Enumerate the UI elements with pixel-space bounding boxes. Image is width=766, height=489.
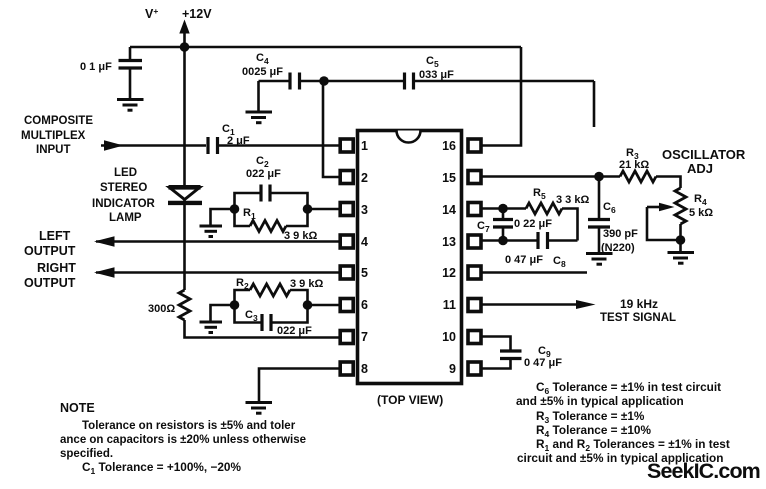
svg-text:TEST SIGNAL: TEST SIGNAL (600, 312, 676, 324)
wire: pin 12 stub (480, 271, 587, 274)
pin 14 (442, 203, 481, 218)
capacitor C5 0.033uF (405, 73, 595, 90)
pin 15 (442, 171, 481, 186)
svg-text:SeekIC.com: SeekIC.com (647, 459, 760, 483)
wire: left output line (pin 4) (96, 240, 341, 243)
svg-text:(N220): (N220) (601, 242, 635, 254)
svg-text:0 22 μF: 0 22 μF (514, 218, 552, 230)
node: C4/C5/pin2 junction (319, 76, 329, 86)
ground (pin 8) (246, 403, 273, 414)
node: R4 wiper/bottom junction (676, 235, 686, 245)
svg-text:2: 2 (361, 171, 368, 185)
test signal arrowhead (576, 300, 596, 309)
wire: pin 14 to R5 (480, 207, 526, 210)
capacitor C9 0.47uF (500, 351, 522, 359)
resistor R3 2.1k (620, 171, 656, 182)
svg-text:390 pF: 390 pF (603, 228, 638, 240)
node: pin15/R3/C6 junction (594, 172, 604, 182)
node: V+ rail / LED branch junction (180, 42, 190, 52)
wire: pin 9 to C9 (480, 360, 511, 369)
svg-text:LEFT: LEFT (39, 229, 71, 243)
pin 7 (340, 330, 368, 344)
ground (0.1uF) (117, 100, 144, 111)
svg-text:022 μF: 022 μF (246, 168, 281, 180)
wire: pin 11 test signal line (480, 303, 580, 306)
pin 1 (340, 139, 368, 153)
pin 13 (442, 235, 481, 249)
svg-text:13: 13 (442, 235, 456, 249)
svg-text:3 9 kΩ: 3 9 kΩ (284, 230, 317, 242)
wire: pin 8 to ground (259, 369, 341, 402)
node: R2 network left (230, 300, 240, 310)
svg-text:+12V: +12V (182, 7, 212, 21)
wire: R4 bottom to node (679, 224, 682, 240)
pin 2 (340, 171, 368, 186)
svg-text:6: 6 (361, 298, 368, 312)
svg-text:OUTPUT: OUTPUT (24, 244, 76, 258)
pin 8 (340, 362, 368, 376)
svg-text:0 47 μF: 0 47 μF (505, 254, 543, 266)
svg-text:16: 16 (442, 139, 456, 153)
svg-text:2 μF: 2 μF (227, 135, 250, 147)
wire: R3 to R4 top (656, 177, 681, 189)
input arrowhead (104, 140, 124, 150)
svg-text:9: 9 (449, 362, 456, 376)
label: LEFT OUTPUT (24, 229, 76, 258)
wire: pin 13 to C8 (480, 239, 537, 242)
svg-text:OUTPUT: OUTPUT (24, 276, 76, 290)
svg-text:specified.: specified. (60, 448, 113, 460)
svg-text:STEREO: STEREO (100, 182, 147, 194)
potentiometer R4 5k (675, 188, 686, 224)
V+ +12V supply arrow (179, 20, 189, 49)
R4 wiper arm and arrow (647, 203, 681, 240)
ground (R4) (668, 253, 695, 264)
left output arrowhead (94, 236, 115, 246)
node: pin14/C7/R5 junction (498, 204, 508, 214)
node: R1 network left (230, 204, 240, 214)
wire: junction down to pin 2 (323, 81, 341, 177)
wire: composite multiplex input line (101, 144, 206, 147)
node: R2 network right (303, 300, 313, 310)
svg-text:LED: LED (114, 167, 137, 179)
resistor 300 ohm (179, 290, 190, 320)
svg-text:7: 7 (361, 330, 368, 344)
svg-text:OSCILLATOR: OSCILLATOR (662, 147, 746, 162)
wire: C5 right stub down (593, 81, 596, 127)
svg-text:14: 14 (442, 203, 456, 217)
label: COMPOSITE MULTIPLEX INPUT (21, 115, 93, 156)
svg-text:1: 1 (361, 139, 368, 153)
wire: 300 ohm to bottom line, bottom line to pin 7 (185, 320, 342, 338)
svg-text:ance on capacitors is ±20% unl: ance on capacitors is ±20% unless otherw… (60, 434, 306, 446)
svg-text:LAMP: LAMP (109, 212, 142, 224)
node: pin13/C7/C8 junction (498, 236, 508, 246)
resistor R1 3.9k (bottom of network) (235, 209, 308, 232)
pin 4 (340, 235, 368, 249)
wire: network right node to pin 3 (308, 208, 342, 211)
svg-text:21 kΩ: 21 kΩ (619, 159, 649, 171)
wire: LED branch vertical (183, 47, 186, 187)
svg-text:4: 4 (361, 235, 368, 249)
resistor R2 3.9k (top of network) (235, 284, 308, 305)
node: R1 network right (303, 204, 313, 214)
capacitor 0.1uF bypass (119, 47, 143, 98)
svg-text:0 1 μF: 0 1 μF (80, 61, 112, 73)
svg-text:INPUT: INPUT (36, 144, 71, 156)
svg-text:5: 5 (361, 266, 368, 280)
wire: LED to 300 ohm resistor (183, 199, 186, 290)
svg-text:3: 3 (361, 203, 368, 217)
svg-text:11: 11 (443, 298, 456, 312)
wire: right output line (pin 5) (96, 271, 341, 274)
capacitor C3 0.022uF (bottom of network) (235, 305, 308, 331)
wire: left node to ground hook (211, 209, 235, 225)
wire: pin 10 to C9 (480, 337, 511, 351)
op-amp U1: 16-pin DIP body (TOP VIEW) (358, 131, 462, 384)
wire: R4 to ground (679, 240, 682, 251)
svg-text:NOTE: NOTE (60, 401, 95, 415)
svg-text:MULTIPLEX: MULTIPLEX (21, 130, 86, 142)
capacitor C6 390pF (N220) (588, 177, 610, 253)
svg-text:8: 8 (361, 362, 368, 376)
pin 9 (449, 362, 481, 376)
svg-text:3 3 kΩ: 3 3 kΩ (556, 194, 589, 206)
ground (R1 network) (200, 226, 223, 237)
capacitor C4 0.0025uF (259, 73, 325, 111)
svg-text:ADJ: ADJ (687, 161, 713, 176)
label: RIGHT OUTPUT (24, 261, 76, 290)
note text block (60, 401, 306, 476)
svg-text:15: 15 (442, 171, 456, 185)
svg-text:Tolerance on resistors is ±5%: Tolerance on resistors is ±5% and toler (82, 420, 296, 432)
label: LED STEREO INDICATOR LAMP (92, 167, 156, 224)
pin 6 (340, 298, 368, 312)
pin 12 (442, 266, 481, 280)
svg-text:033 μF: 033 μF (419, 69, 454, 81)
tolerance text block (516, 380, 730, 465)
capacitor C8 0.47uF (538, 232, 578, 249)
svg-text:0025 μF: 0025 μF (242, 66, 283, 78)
ground (C6) (586, 254, 613, 265)
label: OSCILLATOR ADJ (662, 147, 746, 176)
svg-text:5 kΩ: 5 kΩ (689, 207, 713, 219)
svg-text:12: 12 (442, 266, 456, 280)
svg-text:10: 10 (442, 330, 456, 344)
wire: pin 15 to oscillator node (480, 175, 620, 178)
svg-text:19 kHz: 19 kHz (620, 297, 658, 311)
capacitor C7 0.22uF (493, 209, 513, 241)
pin 3 (340, 203, 368, 218)
LED stereo indicator lamp (168, 187, 202, 203)
wire: junction to C5 (324, 80, 403, 83)
pin 16 (442, 139, 481, 153)
label: 19 kHz TEST SIGNAL (600, 297, 676, 324)
pin 10 (442, 330, 481, 344)
svg-text:0 47 μF: 0 47 μF (524, 357, 562, 369)
wire: rail drop to pin 16 (480, 47, 521, 146)
pin 5 (340, 266, 368, 280)
svg-text:3 9 kΩ: 3 9 kΩ (290, 278, 323, 290)
svg-text:COMPOSITE: COMPOSITE (24, 115, 93, 127)
right output arrowhead (94, 267, 115, 277)
pin 11 (443, 298, 481, 312)
wire: R2 left node to ground hook (211, 305, 235, 321)
svg-text:C1 Tolerance = +100%, −20%: C1 Tolerance = +100%, −20% (82, 460, 241, 476)
svg-text:INDICATOR: INDICATOR (92, 198, 156, 210)
wire: +12V top rail (130, 46, 521, 49)
svg-text:RIGHT: RIGHT (37, 261, 76, 275)
svg-text:(TOP VIEW): (TOP VIEW) (377, 393, 443, 407)
ground (C4) (246, 112, 273, 123)
wire: R2 network right node to pin 6 (308, 304, 342, 307)
capacitor C1 2uF (208, 137, 341, 154)
ground (R2 network) (200, 322, 223, 333)
wire: R5 right down to C8 line (562, 209, 578, 241)
svg-text:300Ω: 300Ω (148, 303, 175, 315)
capacitor C2 0.022uF (top of R1 network) (235, 185, 308, 210)
svg-text:and ±5% in typical application: and ±5% in typical application (516, 394, 684, 408)
svg-text:022 μF: 022 μF (277, 325, 312, 337)
resistor R5 3.3k (526, 203, 562, 214)
